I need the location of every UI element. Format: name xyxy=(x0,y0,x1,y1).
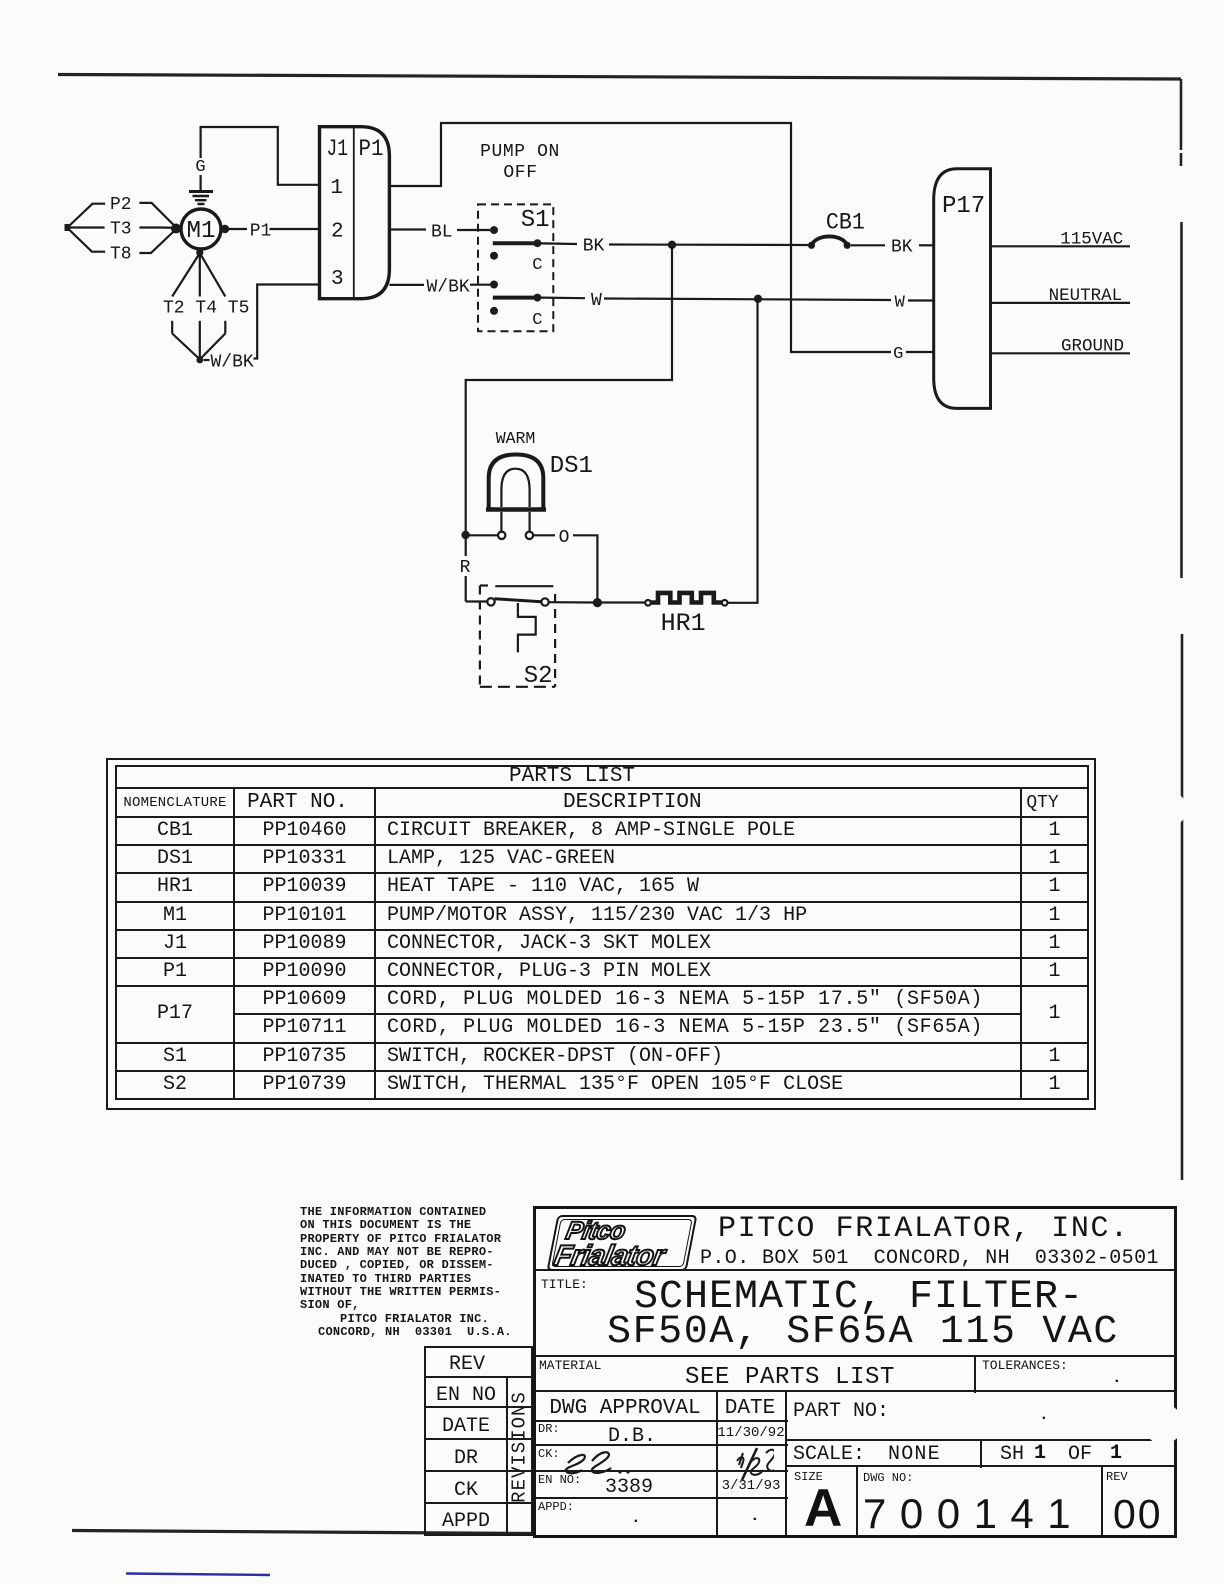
paper notch overlay xyxy=(1143,1404,1183,1444)
svg-text:W: W xyxy=(591,291,602,311)
wire G net from motor to J1 pin1 xyxy=(201,127,320,190)
paper notches on right edge xyxy=(1143,176,1205,1440)
right area lines xyxy=(786,1439,1174,1441)
ground symbol xyxy=(189,192,213,205)
svg-text:PUMP ON: PUMP ON xyxy=(480,142,560,162)
wire W (S1 to P17) xyxy=(541,291,934,313)
svg-text:DS1: DS1 xyxy=(550,453,593,480)
svg-text:T8: T8 xyxy=(110,245,132,265)
svg-text:P2: P2 xyxy=(110,195,132,215)
svg-text:W/BK: W/BK xyxy=(211,353,254,373)
svg-text:GROUND: GROUND xyxy=(1061,337,1124,357)
wire pin1 to P17 G pin (top run) xyxy=(389,123,933,364)
logo xyxy=(547,1215,698,1271)
dwg approval table xyxy=(549,1397,700,1420)
svg-text:BK: BK xyxy=(891,238,913,258)
switch S1 (rocker DPST) xyxy=(478,204,553,331)
row lines xyxy=(536,1269,1174,1271)
wire BK (S1 to CB1) xyxy=(541,237,808,257)
thermal switch S2 xyxy=(466,586,593,691)
svg-text:J1: J1 xyxy=(327,136,349,162)
dwg approval sub-table lines xyxy=(536,1420,788,1422)
signature and handwritten dates xyxy=(554,1445,774,1535)
svg-text:O: O xyxy=(559,528,570,548)
svg-text:P1: P1 xyxy=(359,136,384,162)
svg-text:NEUTRAL: NEUTRAL xyxy=(1049,286,1123,306)
revisions sidebar xyxy=(424,1346,533,1536)
svg-text:S1: S1 xyxy=(521,207,550,234)
node W/BK (motor to J1 pin3) xyxy=(204,285,320,373)
wire (blue pen mark bottom-left) xyxy=(126,1574,270,1576)
node T2/T4/T5 lead bundle xyxy=(163,253,249,363)
svg-text:115VAC: 115VAC xyxy=(1060,230,1123,250)
wire GROUND xyxy=(992,337,1130,357)
svg-text:R: R xyxy=(460,558,471,578)
svg-text:G: G xyxy=(195,158,205,177)
node P2/T3/T8 lead bundle xyxy=(65,195,176,265)
label PUMP ON / OFF xyxy=(480,142,560,183)
lamp DS1 xyxy=(486,429,593,539)
material row xyxy=(539,1358,601,1373)
svg-text:3: 3 xyxy=(331,268,344,291)
connector J1/P1 xyxy=(320,127,390,299)
svg-text:T2 T4 T5: T2 T4 T5 xyxy=(163,299,249,319)
svg-text:C: C xyxy=(532,256,542,275)
wire W/BK (J1 pin3 to S1) xyxy=(389,278,490,298)
wire HR1 to W junction xyxy=(728,298,758,603)
wire 115VAC xyxy=(992,230,1130,250)
svg-text:W/BK: W/BK xyxy=(427,278,470,298)
wire NEUTRAL xyxy=(992,286,1130,306)
svg-text:M1: M1 xyxy=(187,218,216,245)
title block xyxy=(533,1206,1177,1538)
svg-text:HR1: HR1 xyxy=(661,609,706,638)
disclaimer text xyxy=(300,1206,512,1339)
svg-text:P1: P1 xyxy=(250,222,272,242)
svg-text:C: C xyxy=(532,311,542,330)
svg-text:T3: T3 xyxy=(110,220,132,240)
wire M1 P1 lead to J1 pin2 xyxy=(228,222,320,242)
wire BK junction down to lamp node R xyxy=(461,245,672,602)
svg-text:2: 2 xyxy=(331,221,344,244)
connector P17 xyxy=(934,169,991,409)
svg-text:G: G xyxy=(893,345,903,364)
svg-text:W: W xyxy=(895,294,906,313)
parts list table xyxy=(106,758,1096,1110)
motor M1 xyxy=(171,209,229,256)
svg-text:1: 1 xyxy=(330,177,343,200)
title row xyxy=(541,1277,588,1292)
part no / scale / size rows xyxy=(793,1400,889,1423)
svg-text:WARM: WARM xyxy=(496,429,536,448)
svg-text:OFF: OFF xyxy=(503,163,537,183)
circuit breaker CB1 xyxy=(808,209,934,257)
wire lamp row with O terminal xyxy=(470,528,603,607)
svg-text:S2: S2 xyxy=(524,663,553,690)
svg-text:BL: BL xyxy=(431,223,453,243)
heat tape HR1 xyxy=(602,593,728,638)
svg-text:P17: P17 xyxy=(942,193,985,220)
svg-text:BK: BK xyxy=(583,237,605,257)
svg-text:CB1: CB1 xyxy=(826,209,865,235)
wire BL (J1 pin2 to S1) xyxy=(389,223,490,243)
